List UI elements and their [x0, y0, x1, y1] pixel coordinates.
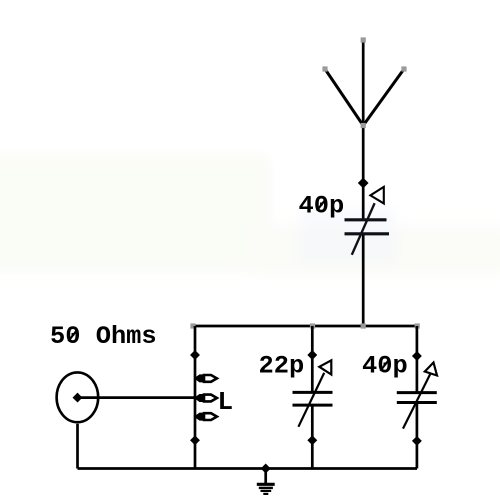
- junction C3 bottom: [412, 436, 422, 446]
- antenna handle left arm: [322, 66, 327, 71]
- inductor L branch wire: [194, 326, 197, 469]
- label 40p (C1): [299, 191, 345, 220]
- bus wire: [193, 325, 417, 328]
- wire J1 down: [76, 424, 79, 469]
- bottom wire: [78, 467, 418, 470]
- bus handle at feed: [361, 323, 366, 328]
- junction C3 top: [412, 351, 422, 361]
- inductor L coil loop 1: [195, 374, 217, 382]
- svg-text:22p: 22p: [259, 352, 305, 381]
- label 50 Ohms: [50, 322, 157, 351]
- svg-text:L: L: [218, 387, 234, 417]
- inductor L coil loop 3: [195, 413, 217, 421]
- wire C1 to bus: [362, 235, 365, 326]
- junction L bottom: [190, 435, 200, 445]
- antenna handle top: [361, 37, 366, 42]
- capacitor C3 40p variable: [397, 326, 437, 469]
- junction C2 bottom: [307, 435, 317, 445]
- bus handle left: [190, 323, 195, 328]
- bus handle at C2: [310, 323, 315, 328]
- watermark ghost background: [0, 155, 500, 275]
- connector J1 source circle: [57, 372, 99, 422]
- svg-text:50 Ohms: 50 Ohms: [50, 322, 157, 351]
- inductor L coil loop 2: [195, 394, 217, 402]
- bus handle right: [415, 323, 420, 328]
- wire J1 to L: [79, 396, 194, 399]
- capacitor C1 40p variable: [345, 187, 390, 255]
- antenna handle junction: [361, 123, 366, 128]
- ground: [257, 469, 275, 494]
- label 40p (C3): [362, 352, 408, 381]
- junction at ground: [261, 464, 271, 474]
- antenna E1: [325, 40, 404, 220]
- junction node above C1: [358, 178, 369, 189]
- junction C2 top: [307, 350, 317, 360]
- junction L top: [190, 350, 200, 360]
- antenna handle right arm: [401, 66, 406, 71]
- capacitor C2 22p variable: [293, 326, 333, 469]
- label 22p (C2): [259, 352, 305, 381]
